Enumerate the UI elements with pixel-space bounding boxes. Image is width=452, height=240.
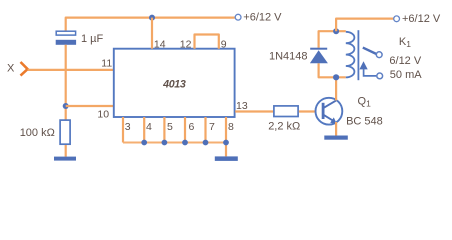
svg-text:6/12 V: 6/12 V [389,55,421,67]
wire top supply rail [66,18,235,31]
svg-text:50 mA: 50 mA [390,69,422,81]
capacitor C1 bottom plate [56,40,76,45]
node dot bottom rail collector [333,74,339,80]
wire R1 to ground [65,145,67,157]
wire feed from +6/12V right [336,19,393,32]
svg-text:12: 12 [180,38,192,50]
transistor Q1 emitter lead [323,115,334,121]
svg-text:11: 11 [101,57,112,69]
svg-text:2,2 kΩ: 2,2 kΩ [268,120,300,132]
wire X to pin 11 [28,69,114,71]
wire pin8 bus drop to ground [225,143,227,157]
node dot pin8 bus [223,140,229,146]
svg-text:14: 14 [154,38,166,50]
resistor R2 2,2k body [274,106,298,117]
wire pin 3 stub [122,117,124,143]
svg-text:1N4148: 1N4148 [269,51,308,63]
svg-text:5: 5 [167,121,173,133]
node junction dot pin14 on top rail [149,15,155,21]
wire cap bottom down to R1 [65,45,67,120]
svg-text:13: 13 [236,100,248,112]
svg-text:100 kΩ: 100 kΩ [20,127,55,139]
diode D1 1N4148 cathode bar [310,48,327,50]
wire relay top rail [319,31,346,48]
node junction dot cap/R1/pin10 [63,103,69,109]
relay K1 actuation arrow [359,61,367,69]
wire pin 8 stub [225,117,227,143]
wire pin 13 to R2 [235,110,273,112]
svg-text:6: 6 [189,121,195,133]
wire pin 14 stub [151,18,153,49]
IC U1 4013 body [114,49,235,117]
relay K1 core line [357,30,359,80]
relay K1 contact circle top [376,52,382,58]
wire pin 7 stub [204,117,206,143]
svg-text:1 µF: 1 µF [81,33,104,45]
wire relay bottom rail [319,63,346,77]
ground symbol below pin 8 [215,156,238,161]
wire pin 4 stub [143,117,145,143]
node dot pin6 bus [182,140,188,146]
capacitor C1 top plate [56,31,75,35]
svg-text:4: 4 [146,121,152,133]
node dot pin7 bus [203,140,209,146]
svg-text:7: 7 [209,121,215,133]
wire pin 6 stub [184,117,186,143]
relay K1 coil [346,32,355,78]
terminal +6/12 V left [235,14,241,20]
wire collector to relay rail [335,77,337,100]
input chevron X [21,62,28,76]
resistor R1 100k body [60,120,70,144]
svg-text:8: 8 [228,121,234,133]
transistor Q1 circle [316,98,343,125]
transistor Q1 collector lead [323,101,336,109]
svg-text:9: 9 [221,38,227,50]
relay K1 contact circle bottom [377,73,383,79]
svg-text:10: 10 [97,108,109,120]
svg-text:+6/12 V: +6/12 V [402,13,441,25]
wire node to pin 10 [66,105,114,107]
wire pin 5 stub [163,117,165,143]
transistor Q1 base bar [322,103,325,119]
relay K1 contact wire [364,69,377,76]
ground symbol below R1 [54,157,76,161]
wire pin 12 to pin 9 link [195,35,219,49]
ground symbol below Q1 [324,136,348,140]
wire emitter to ground [335,122,337,136]
node dot top rail feed [333,28,339,34]
svg-text:X: X [7,62,15,74]
wire R2 to Q1 base [299,110,317,112]
terminal +6/12 V right [394,16,400,22]
svg-text:BC 548: BC 548 [346,115,383,127]
node dot pin5 bus [162,140,168,146]
svg-text:+6/12 V: +6/12 V [243,12,282,24]
wire ground bus under IC [123,142,226,144]
svg-text:4013: 4013 [162,78,186,90]
transistor Q1 emitter arrow [330,117,337,124]
diode D1 triangle [310,50,328,63]
relay K1 switch lever [363,48,377,54]
svg-text:3: 3 [125,121,131,133]
node dot pin4 bus [141,140,147,146]
